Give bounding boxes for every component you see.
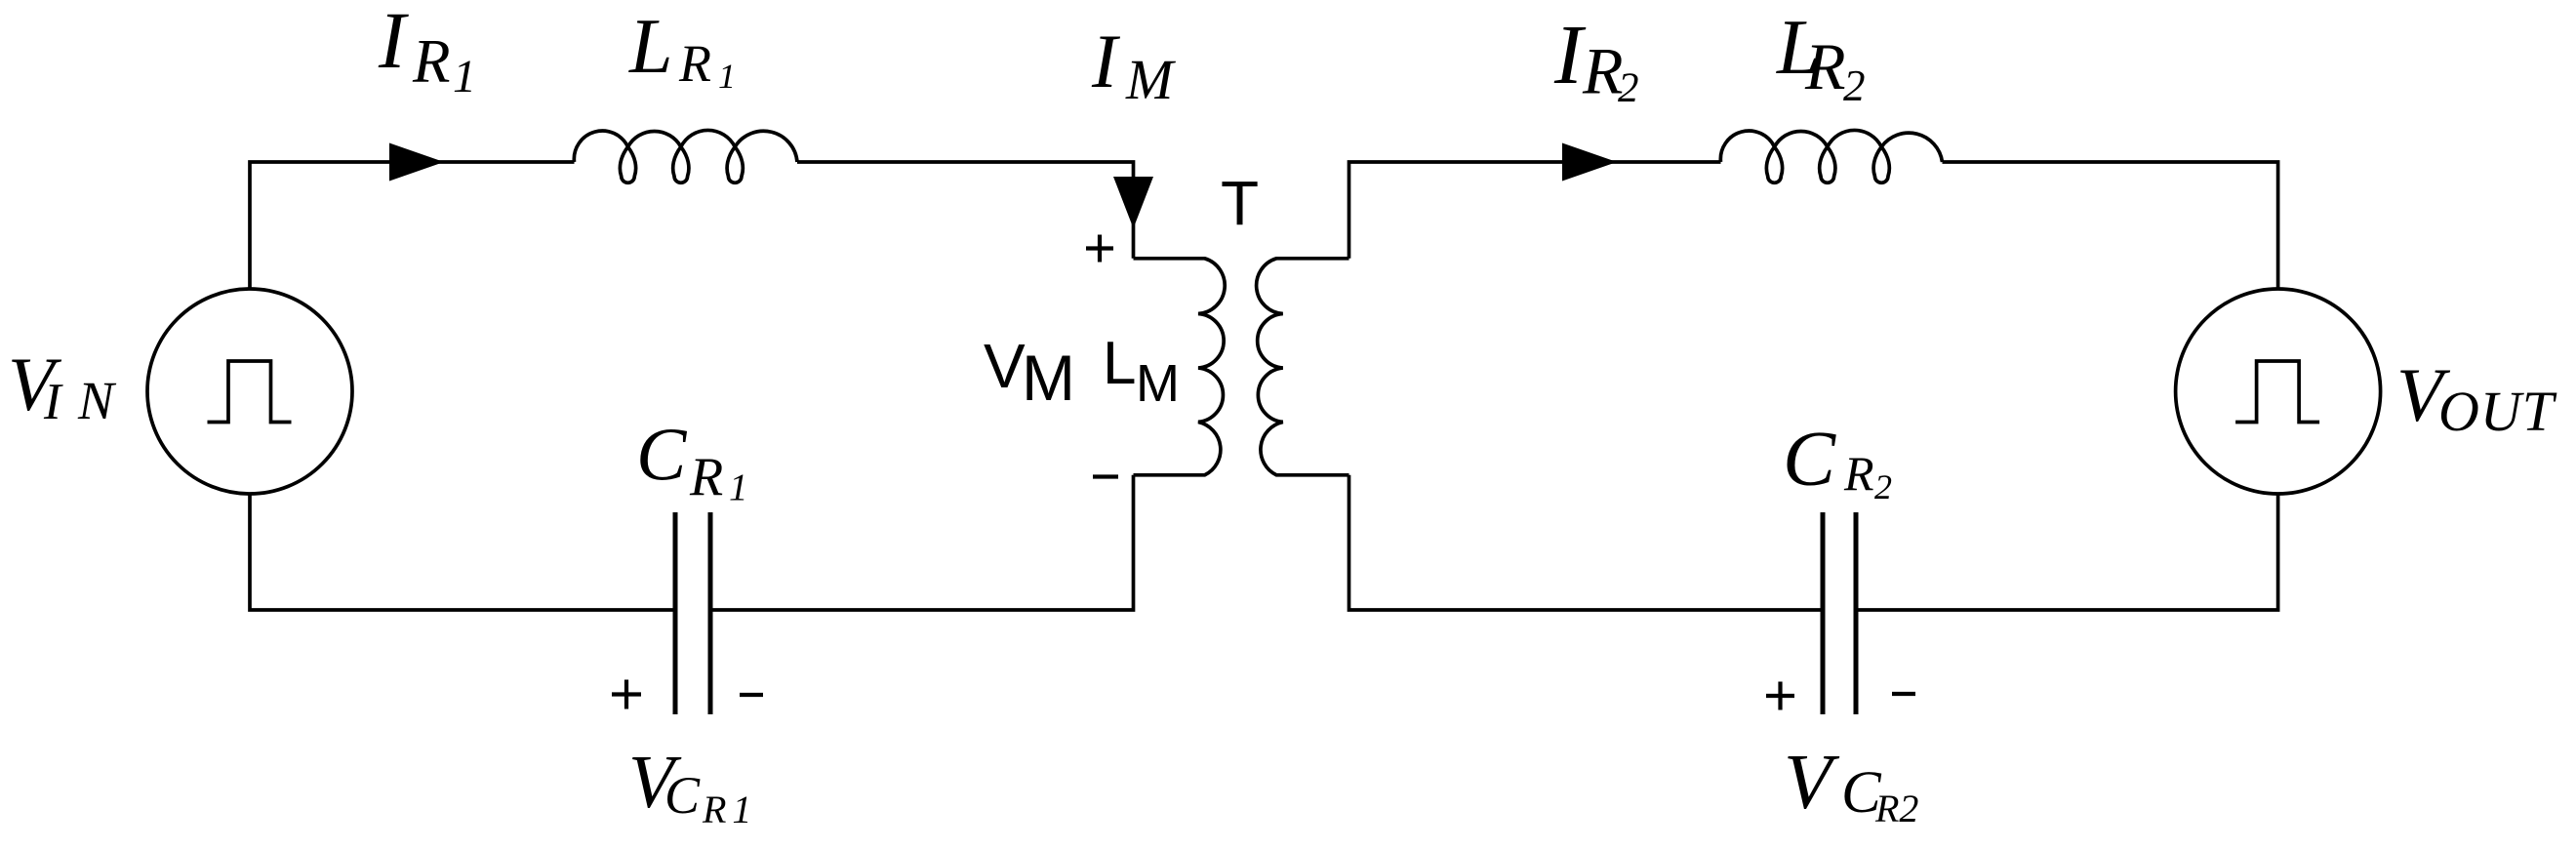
svg-text:L: L (1103, 330, 1136, 397)
svg-text:R: R (689, 447, 723, 507)
svg-text:I: I (1553, 7, 1587, 101)
svg-text:C: C (664, 766, 701, 825)
svg-text:M: M (1022, 342, 1075, 414)
svg-text:V: V (1784, 738, 1840, 826)
svg-text:M: M (1136, 354, 1180, 413)
svg-text:V: V (984, 331, 1026, 401)
svg-text:R: R (678, 34, 711, 93)
svg-text:2: 2 (1843, 61, 1866, 110)
svg-text:C: C (1783, 415, 1836, 503)
svg-text:1: 1 (718, 57, 736, 96)
svg-text:L: L (628, 4, 673, 90)
svg-text:1: 1 (729, 466, 748, 508)
svg-text:R: R (1804, 29, 1846, 103)
svg-text:R: R (412, 27, 450, 96)
svg-text:T: T (1221, 168, 1259, 238)
svg-text:R1: R1 (702, 788, 757, 831)
svg-text:R2: R2 (1874, 787, 1918, 830)
svg-text:1: 1 (453, 51, 476, 102)
svg-text:I: I (378, 0, 409, 85)
svg-text:2: 2 (1618, 65, 1639, 111)
svg-text:2: 2 (1874, 467, 1892, 506)
svg-text:I: I (1091, 19, 1121, 103)
svg-text:I: I (43, 374, 63, 430)
svg-text:R: R (1843, 446, 1874, 501)
svg-text:C: C (636, 413, 688, 497)
svg-text:M: M (1125, 48, 1176, 111)
svg-text:OUT: OUT (2438, 380, 2557, 443)
svg-text:N: N (77, 371, 117, 430)
